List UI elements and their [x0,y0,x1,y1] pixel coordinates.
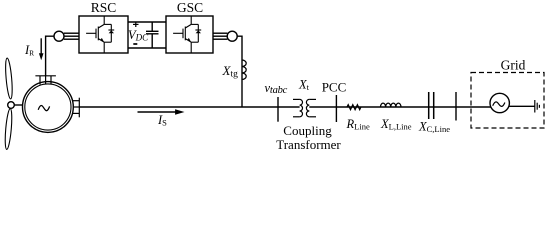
node rotor circle [54,31,64,41]
transistor IGBT with diode inside RSC [86,16,114,53]
transformer coupling left coil [293,99,303,116]
svg-text:RSC: RSC [91,0,117,15]
resistor RLine [347,105,361,110]
svg-text:GSC: GSC [177,0,203,15]
source grid AC circle [490,93,509,112]
turbine shaft [11,104,23,106]
current arrow IS [138,109,185,115]
inductor XLLine [381,103,401,107]
ground [535,100,540,113]
converter GSC box [166,16,213,53]
node GSC output circle [227,31,237,41]
node PCC tick [335,95,337,122]
turbine blade top [4,58,13,99]
wire rotor vertical from RSC circle down to generator top terminal [46,36,55,76]
svg-text:Transformer: Transformer [276,137,341,152]
generator top terminal brush [35,76,56,85]
generator DFIG outer circle [23,82,74,133]
generator right terminal brush [73,98,80,118]
turbine blade bottom [4,108,13,149]
wire DC link bottom rail [128,47,166,49]
wire grid to ground [509,105,534,107]
inductor Xtg [242,60,246,80]
generator tilde [38,106,49,111]
wire main stator bus [79,106,299,108]
current arrow IR [39,38,44,60]
turbine hub [8,102,15,109]
wire GSC down to main bus [237,36,242,107]
wire DC link top rail [128,21,166,23]
grid tilde [493,102,505,107]
node bus tick [455,92,457,121]
label minus [133,43,137,45]
node vtabc tick [277,97,279,122]
svg-text:Grid: Grid [501,58,526,73]
wire 3-phase rotor lines [64,33,79,39]
capacitor XCLine [429,92,434,119]
grid dashed box [471,73,544,129]
converter RSC box [79,16,128,53]
wire 3-phase GSC output lines [213,33,227,39]
label plus [133,22,139,27]
transformer coupling right coil [306,99,316,116]
generator inner circle [25,84,71,130]
transistor IGBT with diode inside GSC [173,16,201,53]
capacitor DC link [146,22,159,48]
wire bus transformer to grid [309,106,490,108]
svg-text:PCC: PCC [322,80,347,95]
svg-text:Coupling: Coupling [283,123,332,138]
